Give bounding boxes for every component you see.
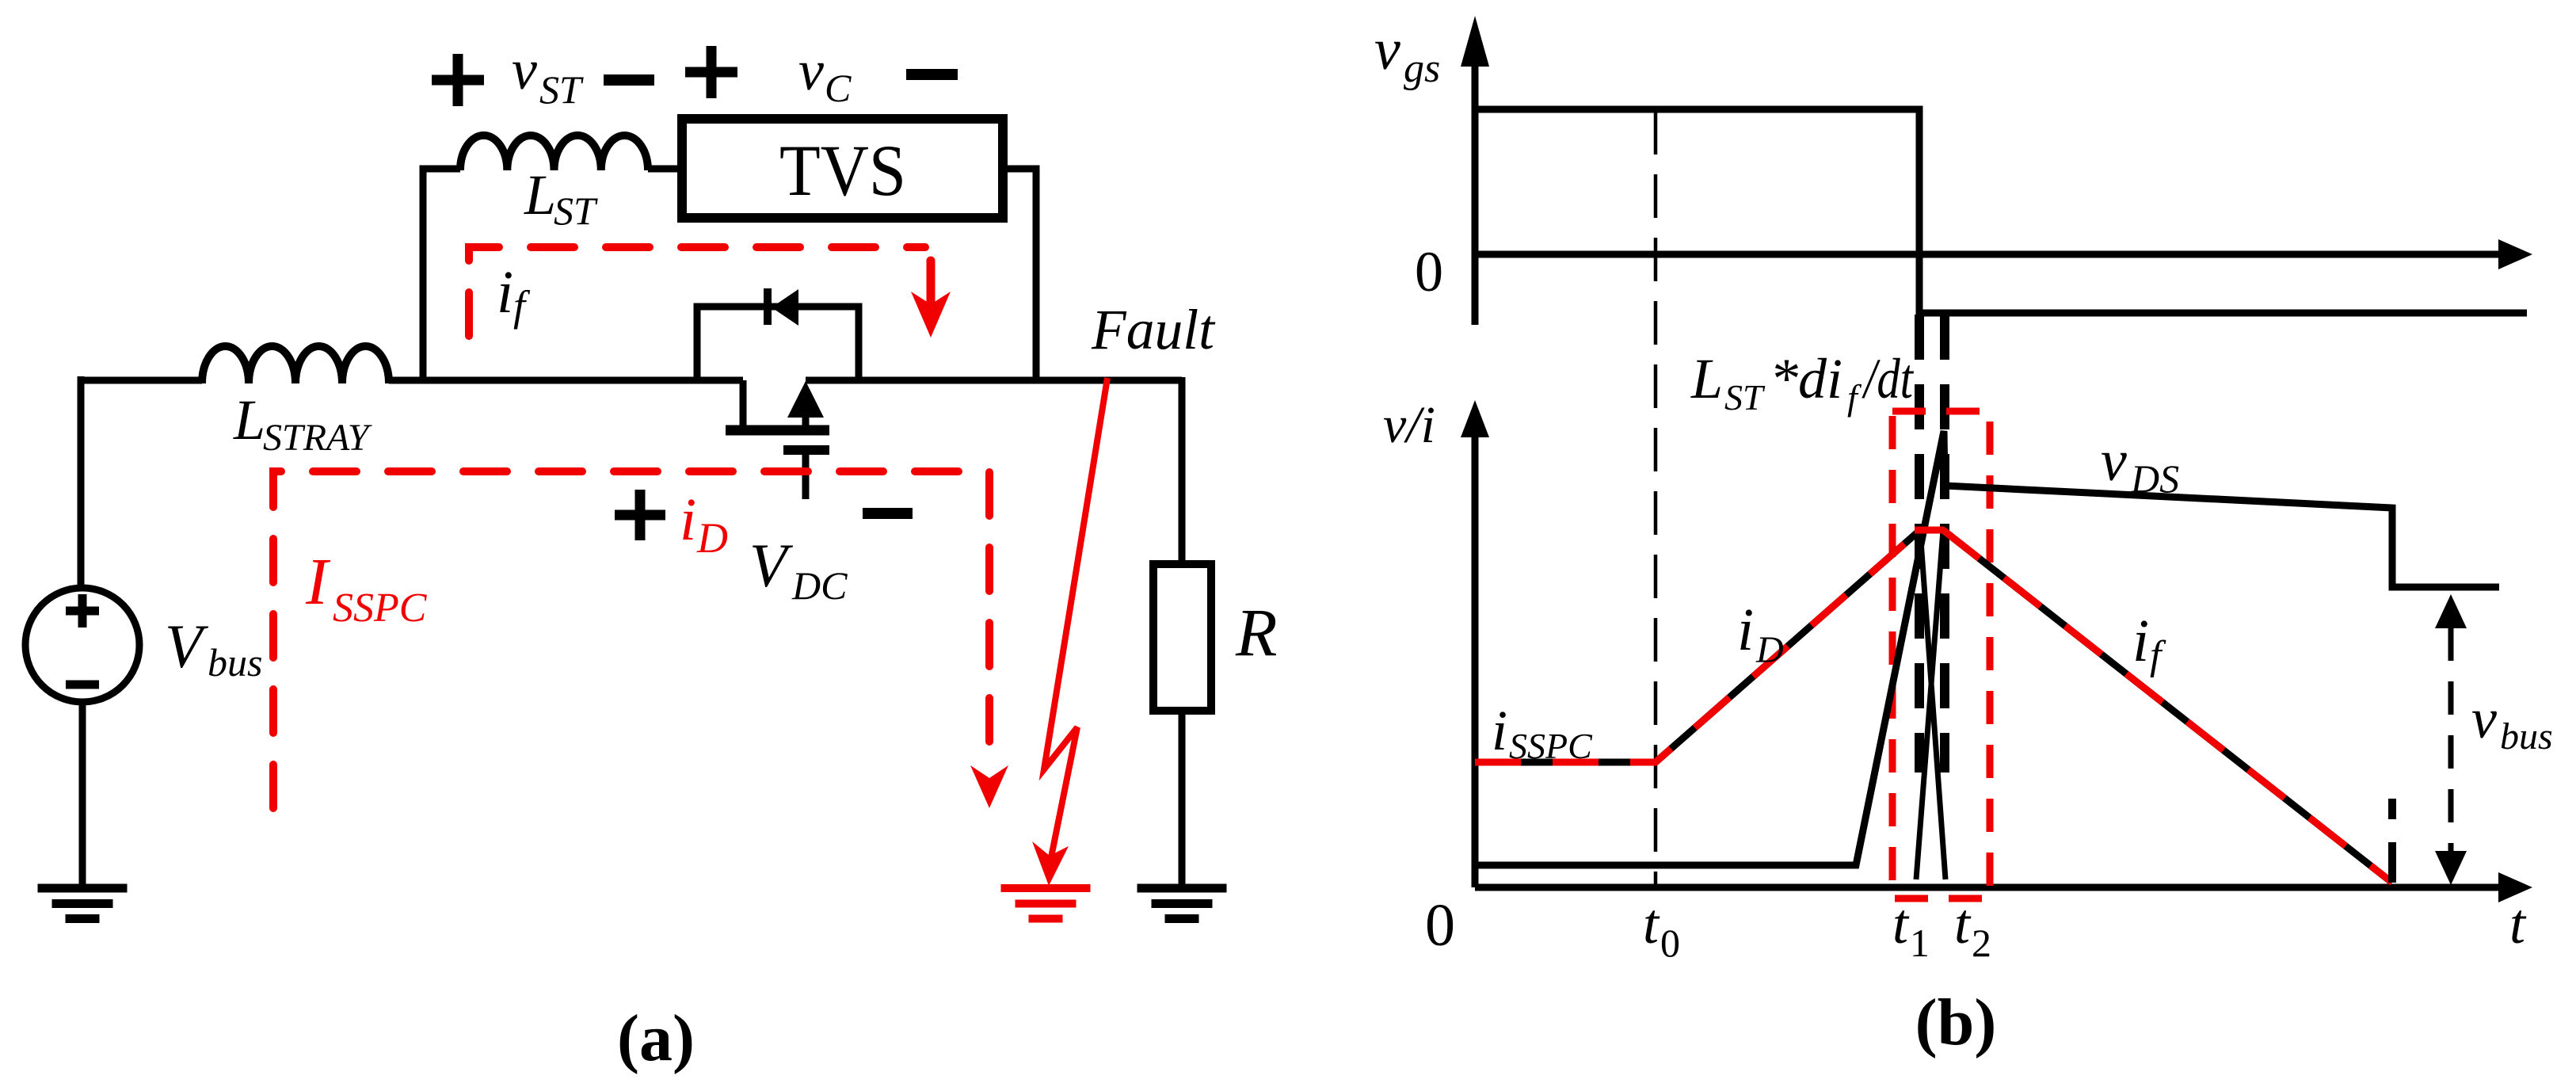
svg-text:t: t bbox=[1954, 892, 1972, 956]
svg-text:v: v bbox=[2471, 687, 2497, 750]
svg-text:i: i bbox=[2132, 608, 2149, 674]
svg-text:STRAY: STRAY bbox=[263, 417, 372, 459]
svg-text:bus: bus bbox=[2500, 715, 2553, 757]
svg-text:ST: ST bbox=[554, 189, 598, 233]
svg-text:L: L bbox=[233, 388, 265, 452]
svg-text:Fault: Fault bbox=[1091, 298, 1216, 361]
svg-text:t: t bbox=[1892, 892, 1910, 956]
svg-text:1: 1 bbox=[1910, 921, 1930, 965]
svg-text:I: I bbox=[305, 545, 331, 619]
svg-text:*di: *di bbox=[1770, 347, 1842, 410]
svg-text:SSPC: SSPC bbox=[1509, 726, 1593, 766]
svg-text:ST: ST bbox=[1724, 377, 1766, 418]
svg-text:bus: bus bbox=[208, 640, 262, 685]
svg-text:(b): (b) bbox=[1915, 986, 1997, 1059]
svg-text:L: L bbox=[524, 163, 556, 227]
svg-text:SSPC: SSPC bbox=[333, 586, 428, 631]
svg-text:TVS: TVS bbox=[779, 130, 906, 211]
svg-text:(a): (a) bbox=[617, 1001, 695, 1075]
svg-text:C: C bbox=[825, 66, 852, 110]
svg-text:v: v bbox=[1374, 17, 1400, 82]
svg-text:V: V bbox=[165, 612, 209, 681]
svg-text:i: i bbox=[497, 259, 513, 326]
svg-text:v: v bbox=[798, 39, 824, 102]
svg-text:DC: DC bbox=[791, 563, 848, 608]
svg-text:0: 0 bbox=[1415, 240, 1443, 303]
svg-text:t: t bbox=[2509, 892, 2527, 956]
svg-text:v: v bbox=[512, 38, 537, 101]
svg-text:/dt: /dt bbox=[1862, 347, 1915, 410]
svg-text:D: D bbox=[696, 514, 728, 562]
svg-text:R: R bbox=[1235, 594, 1278, 670]
svg-text:t: t bbox=[1643, 892, 1660, 956]
svg-text:V: V bbox=[749, 531, 794, 600]
svg-text:i: i bbox=[680, 486, 696, 553]
svg-text:gs: gs bbox=[1404, 46, 1440, 91]
svg-text:ST: ST bbox=[539, 67, 584, 112]
svg-text:DS: DS bbox=[2130, 456, 2179, 501]
svg-text:i: i bbox=[1737, 597, 1754, 663]
svg-text:v: v bbox=[2101, 429, 2127, 494]
svg-text:0: 0 bbox=[1425, 892, 1455, 959]
svg-text:i: i bbox=[1492, 699, 1507, 762]
svg-text:2: 2 bbox=[1972, 921, 1991, 965]
svg-text:L: L bbox=[1690, 347, 1723, 410]
svg-text:0: 0 bbox=[1660, 921, 1680, 965]
svg-text:D: D bbox=[1755, 629, 1784, 671]
svg-text:v/i: v/i bbox=[1383, 396, 1435, 454]
